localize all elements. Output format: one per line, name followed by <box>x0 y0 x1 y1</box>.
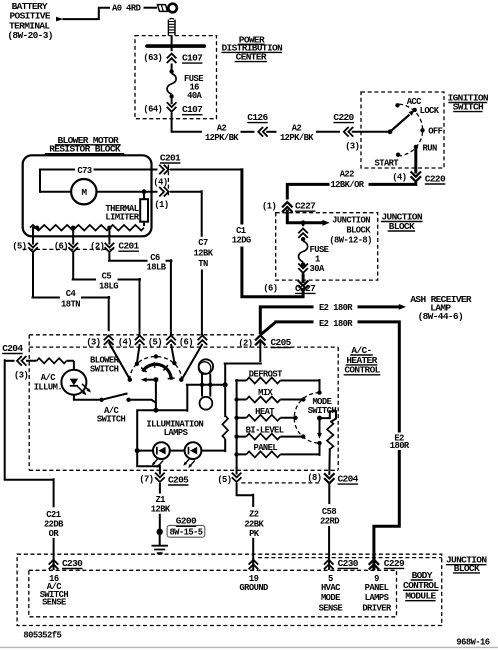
wire A0 to eyelet <box>144 7 158 9</box>
svg-text:A0 4RD: A0 4RD <box>112 3 141 13</box>
tap 6 wire <box>72 229 74 245</box>
pin 19 GROUND <box>239 574 268 593</box>
connector C230 (5) <box>324 560 334 569</box>
svg-text:BLOCK: BLOCK <box>346 225 371 235</box>
ignition switch box <box>361 92 444 168</box>
wire C1 up to C201 <box>240 168 243 224</box>
junction block title (bottom) <box>446 555 487 574</box>
label C7 12BK TN <box>194 238 214 269</box>
C201 right dashed interface <box>167 165 169 197</box>
body control module inner box <box>29 570 397 617</box>
svg-text:(1): (1) <box>262 202 276 212</box>
label A/C SWITCH <box>97 406 126 424</box>
wire C204(3) into box + illum resistor <box>26 361 74 370</box>
label C5 18LG <box>99 271 118 291</box>
svg-text:22RD: 22RD <box>320 516 339 526</box>
eyelet terminal <box>158 4 177 13</box>
svg-text:(8W-44-6): (8W-44-6) <box>418 311 463 322</box>
wire E2 to C229 <box>374 450 401 570</box>
wire C5 18LG <box>72 253 141 332</box>
svg-text:PANEL: PANEL <box>365 583 389 593</box>
svg-text:Z2: Z2 <box>249 509 259 519</box>
wire mode resistor to C204(8) <box>328 448 331 475</box>
wire A/C switch to node <box>129 400 156 403</box>
connector C230 (16) <box>49 560 59 569</box>
svg-text:MODULE: MODULE <box>405 591 436 602</box>
svg-text:ILLUM.: ILLUM. <box>34 382 62 392</box>
C201 lower dashed interface <box>23 248 116 250</box>
svg-text:12PK/BK: 12PK/BK <box>205 133 239 143</box>
battery positive terminal label <box>7 1 52 41</box>
svg-text:(64): (64) <box>143 105 162 115</box>
ignition contact LOCK <box>413 108 417 112</box>
connector C205 (7) <box>155 473 165 482</box>
svg-text:1: 1 <box>315 254 320 264</box>
bus junction dots <box>234 397 238 401</box>
tap 5 wire <box>33 228 37 245</box>
racetrack bottom bulb <box>200 397 213 410</box>
svg-text:12DG: 12DG <box>232 236 251 246</box>
svg-text:E2 180R: E2 180R <box>319 319 353 329</box>
svg-text:SWITCH: SWITCH <box>97 414 126 424</box>
blower switch feed diagonals <box>109 342 203 378</box>
tap 2 wire <box>108 229 110 245</box>
MIX row <box>237 399 302 401</box>
node A branches <box>137 385 187 449</box>
connector C107 (64) <box>171 98 173 104</box>
racetrack top bulb <box>199 359 213 373</box>
ignition pivot and arm <box>388 129 393 134</box>
wire C201(1) to C7 drop <box>170 190 202 237</box>
racetrack lamp dots <box>200 383 204 387</box>
svg-text:C204: C204 <box>338 474 359 485</box>
connector C205 (5-bottom) <box>232 473 242 482</box>
svg-text:C4: C4 <box>66 289 77 299</box>
svg-text:C6: C6 <box>150 253 160 263</box>
connector C227 (6) <box>298 281 308 291</box>
svg-text:JUNCTION: JUNCTION <box>332 216 370 226</box>
svg-text:C201: C201 <box>118 241 139 252</box>
svg-text:(1): (1) <box>154 200 168 210</box>
illumination lamps label <box>146 420 203 439</box>
svg-text:18LB: 18LB <box>147 263 167 273</box>
svg-text:DRIVER: DRIVER <box>362 603 392 613</box>
wire illum to A/C switch <box>74 395 100 400</box>
bus bar <box>147 44 204 48</box>
svg-text:(8): (8) <box>307 473 321 483</box>
wire to C220 <box>316 131 340 133</box>
wire C21 22DB OR <box>5 359 54 507</box>
svg-text:MIX: MIX <box>258 388 273 398</box>
connector C229 (9) <box>369 560 379 570</box>
svg-text:MODE: MODE <box>321 593 340 603</box>
connector C204 (3) <box>5 360 15 362</box>
svg-text:HVAC: HVAC <box>321 583 341 593</box>
junction block title <box>381 211 422 232</box>
blower switch pivot and arrow <box>153 377 158 382</box>
wire to C126 <box>241 131 255 133</box>
svg-text:C227: C227 <box>295 201 316 212</box>
svg-text:12BK: 12BK <box>151 505 171 515</box>
svg-text:START: START <box>375 159 400 169</box>
ignition switch title <box>448 92 489 112</box>
label Z2 22BK PK <box>244 509 264 539</box>
wiper ticks <box>141 362 175 379</box>
wire stud to bus to C107(63) <box>171 36 173 52</box>
blower switch label <box>90 355 120 374</box>
svg-text:18TN: 18TN <box>61 300 80 310</box>
svg-text:DEFROST: DEFROST <box>249 369 283 379</box>
A/C-heater control box top interface line 1 <box>29 334 254 336</box>
E2 line to ash receiver lamp <box>259 305 400 334</box>
thermal limiter <box>143 192 145 226</box>
label A22 12BK/OR <box>330 170 364 190</box>
BI-LEVEL row <box>237 436 302 438</box>
power distribution center box <box>135 36 217 119</box>
label C1 12DG <box>232 226 251 245</box>
resistor tap dots <box>35 226 39 230</box>
connector C220 (3) <box>344 127 353 137</box>
svg-text:18LG: 18LG <box>99 282 118 292</box>
A/C-heater control box top interface line 2 <box>29 346 338 348</box>
connector into fuse 1 <box>302 225 304 226</box>
ignition contact OFF <box>420 128 424 132</box>
mode switch common and wiper <box>317 416 322 421</box>
connector C201 (6) <box>68 243 78 252</box>
wire C220(4) to A22 corner <box>369 182 418 184</box>
label A2 12PK/BK <box>205 124 239 144</box>
E2 line to panel lamps driver <box>260 320 401 432</box>
svg-text:SWITCH: SWITCH <box>90 365 119 375</box>
pin 16 A/C SWITCH SENSE <box>40 574 69 607</box>
A/C-heater control box bottom interface line 1 <box>29 469 338 471</box>
connector C107 (63) <box>167 54 177 63</box>
ignition contact START <box>396 153 400 157</box>
wire fuse1 to C227(6) <box>302 274 305 284</box>
junction block box <box>276 213 378 280</box>
wire C126 to label2 <box>266 131 276 133</box>
connector band line <box>258 557 442 559</box>
mode switch contacts <box>317 390 321 394</box>
lamps feed resistor <box>222 416 228 439</box>
label A/C ILLUM. <box>34 373 62 392</box>
connector C205 (2) <box>255 335 265 345</box>
label C4 18TN <box>61 289 80 309</box>
svg-text:GROUND: GROUND <box>239 583 268 593</box>
svg-text:12BK: 12BK <box>194 249 214 259</box>
wire to fuse <box>171 64 173 71</box>
svg-text:12BK/OR: 12BK/OR <box>330 180 364 190</box>
svg-text:40A: 40A <box>187 91 202 101</box>
svg-text:C220: C220 <box>425 173 446 184</box>
A/C-heater control box right edge <box>337 347 339 470</box>
label C6 18LB <box>147 253 167 273</box>
illumination lamp 2 <box>185 442 202 459</box>
mode ladder bus <box>236 379 238 469</box>
connector C205 (5) <box>170 331 172 335</box>
blower switch dashed arc <box>130 357 182 380</box>
PANEL row <box>237 445 320 456</box>
svg-text:LIMITER: LIMITER <box>105 212 139 222</box>
junction block outer box (bottom) <box>17 554 442 625</box>
svg-text:C229: C229 <box>384 558 405 569</box>
ignition rotary dashed arc <box>399 104 423 156</box>
svg-text:(2): (2) <box>238 338 252 348</box>
threaded stud <box>168 18 175 35</box>
mode switch label <box>308 397 337 416</box>
power distribution center title <box>221 34 283 62</box>
svg-text:C220: C220 <box>333 112 354 123</box>
svg-text:C230: C230 <box>338 558 359 569</box>
pin 9 PANEL LAMPS DRIVER <box>362 574 392 613</box>
lamp row wire <box>137 439 225 452</box>
svg-text:RUN: RUN <box>423 143 437 153</box>
mode common feed jog <box>320 410 337 421</box>
body control module title <box>403 570 439 602</box>
lamp bus <box>186 384 225 386</box>
wire C227(1) into block with feed arrow <box>286 210 323 223</box>
svg-text:C7: C7 <box>198 238 208 248</box>
A/C illum lamp <box>61 370 86 395</box>
battery arrow <box>56 17 63 22</box>
svg-text:Z1: Z1 <box>155 495 165 505</box>
wire C205(5) to Z2 <box>237 467 254 507</box>
svg-text:(8W-12-8): (8W-12-8) <box>329 235 372 245</box>
svg-text:C230: C230 <box>62 558 83 569</box>
page bottom rule <box>0 646 498 648</box>
svg-text:(4): (4) <box>392 173 406 183</box>
connector C201 (4) <box>159 165 168 175</box>
blower motor <box>71 179 96 204</box>
svg-text:A22: A22 <box>340 170 354 180</box>
junction block inner label <box>329 216 372 246</box>
svg-text:HEAT: HEAT <box>255 407 275 417</box>
svg-text:30A: 30A <box>310 264 325 274</box>
fuse 1 30A <box>302 237 304 239</box>
svg-text:BLOCK: BLOCK <box>389 221 415 232</box>
wire Z1 to G200 <box>159 483 161 531</box>
svg-text:12PK/BK: 12PK/BK <box>280 133 314 143</box>
svg-text:LAMPS: LAMPS <box>164 428 188 438</box>
mode feed resistor <box>327 421 333 449</box>
svg-text:22DB: 22DB <box>44 519 64 529</box>
A/C-heater control box bottom interface line 2 <box>241 482 321 484</box>
8W-15-5 boxed label <box>167 525 205 537</box>
svg-text:C201: C201 <box>160 152 181 163</box>
fuse 16 40A <box>169 69 173 73</box>
connector C227 (1) <box>282 202 292 212</box>
A/C-heater control box left edge <box>28 335 30 471</box>
svg-text:C107: C107 <box>182 53 203 64</box>
connector C205 (4) <box>139 331 141 335</box>
svg-text:C5: C5 <box>102 271 112 281</box>
connector C201 (2) <box>105 243 115 252</box>
svg-text:CONTROL: CONTROL <box>403 580 439 591</box>
svg-text:LAMPS: LAMPS <box>365 593 389 603</box>
svg-text:C126: C126 <box>247 112 268 123</box>
svg-text:E2 180R: E2 180R <box>319 303 353 313</box>
svg-text:22BK: 22BK <box>244 520 264 530</box>
ignition contact ACC <box>395 103 399 107</box>
connector C205 (3) <box>104 336 114 345</box>
junction dot fuse1 tap <box>301 220 306 225</box>
svg-text:(4): (4) <box>153 177 167 187</box>
svg-text:CONTROL: CONTROL <box>344 365 380 376</box>
svg-text:OR: OR <box>49 529 60 539</box>
svg-text:180R: 180R <box>390 441 410 451</box>
svg-text:C107: C107 <box>182 104 203 115</box>
svg-text:C73: C73 <box>77 166 91 176</box>
blower switch wiper arc <box>143 364 172 379</box>
svg-text:(3): (3) <box>86 337 100 347</box>
C73 internal wire <box>40 170 243 193</box>
svg-text:A2: A2 <box>292 124 302 134</box>
wire lamp return to C205(7) <box>137 449 160 475</box>
svg-text:C204: C204 <box>2 343 23 354</box>
E2 label on right drop <box>390 433 410 450</box>
svg-text:(4): (4) <box>118 338 132 348</box>
racetrack verticals <box>202 374 210 397</box>
svg-text:(7): (7) <box>139 475 153 485</box>
wire C58 22RD <box>328 484 330 505</box>
svg-text:PANEL: PANEL <box>253 443 277 453</box>
pin 5 HVAC MODE SENSE <box>319 574 343 613</box>
svg-text:A2: A2 <box>217 124 227 134</box>
svg-text:C205: C205 <box>168 474 189 485</box>
mode switch dashed arc <box>294 393 319 444</box>
svg-text:LOCK: LOCK <box>420 106 440 116</box>
svg-text:TN: TN <box>198 259 208 269</box>
pivot wire down <box>155 380 157 411</box>
illum arrows <box>78 384 89 393</box>
svg-text:(63): (63) <box>143 53 162 63</box>
svg-text:(8W-20-3): (8W-20-3) <box>7 30 52 41</box>
wire Z2 to ground 19 <box>252 538 254 570</box>
connector C201 (1) <box>159 187 168 197</box>
svg-text:968W-16: 968W-16 <box>456 637 489 647</box>
connector C205 (6) <box>201 331 203 335</box>
svg-text:SENSE: SENSE <box>319 603 343 613</box>
svg-text:(5): (5) <box>148 338 162 348</box>
wire C6 18LB <box>108 253 172 332</box>
wire A22 to C227(1) <box>287 183 329 200</box>
junction dot lamp row <box>135 448 140 453</box>
svg-text:805352f5: 805352f5 <box>23 631 61 641</box>
label Z1 12BK <box>151 495 171 515</box>
blower motor resistor block title <box>49 135 121 155</box>
svg-text:OFF: OFF <box>428 127 442 137</box>
blower motor resistor block outline <box>23 155 152 236</box>
connector C204 (8) <box>324 473 334 483</box>
connector C220 (4) <box>411 172 421 182</box>
wire C220 to ignition pivot <box>352 131 390 133</box>
ash receiver lamp title <box>410 294 472 322</box>
svg-text:C205: C205 <box>271 337 292 348</box>
svg-text:C21: C21 <box>46 510 60 520</box>
A/C-heater control title <box>344 345 380 376</box>
junction dot node A <box>153 408 158 413</box>
junction dot motor/limiter <box>142 189 147 194</box>
illumination lamp 1 <box>153 442 170 459</box>
svg-text:(3): (3) <box>345 142 359 152</box>
connector C230 (19) <box>249 560 259 569</box>
HEAT row <box>237 417 294 419</box>
wire C4 18TN <box>32 253 111 332</box>
connector C201 (5) <box>28 243 38 252</box>
svg-text:SENSE: SENSE <box>42 598 66 608</box>
svg-text:8W-15-5: 8W-15-5 <box>169 527 202 537</box>
svg-text:(6): (6) <box>179 338 193 348</box>
DEFROST row <box>235 379 319 391</box>
wire C7 to C205(6) <box>201 270 203 332</box>
ground symbol <box>159 532 161 545</box>
label A2 12PK/BK (2) <box>280 124 314 144</box>
A/C switch <box>99 398 103 402</box>
motor leads <box>40 191 158 193</box>
wire battery to A0 <box>63 8 111 19</box>
svg-text:BI-LEVEL: BI-LEVEL <box>246 426 284 436</box>
svg-text:(6): (6) <box>263 284 277 294</box>
wire resistor top to C205(2) jog <box>224 342 262 417</box>
svg-text:(3): (3) <box>14 370 28 380</box>
wire A2 from PDC <box>171 113 202 132</box>
svg-text:(5): (5) <box>217 475 231 485</box>
ground junction dot G200 <box>157 529 163 535</box>
svg-text:PK: PK <box>249 529 260 539</box>
A/C illumination resistor <box>37 358 67 363</box>
svg-text:C227: C227 <box>295 283 316 294</box>
wire RUN down to C220(4) <box>414 147 417 174</box>
ignition contact RUN <box>414 145 418 149</box>
wire C227(6) down-left-up (C1 feed) <box>242 247 305 299</box>
connector C126 <box>258 127 267 137</box>
blower resistor element <box>30 225 144 231</box>
blower switch contacts <box>128 378 132 382</box>
connector out of fuse 1 <box>298 264 308 273</box>
label THERMAL LIMITER <box>105 204 139 222</box>
